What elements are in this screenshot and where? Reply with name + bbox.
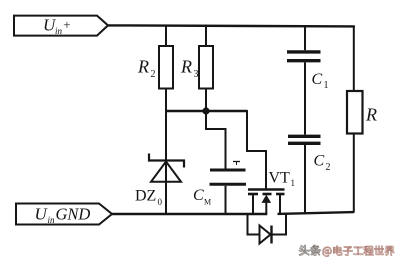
svg-text:2: 2: [151, 69, 156, 80]
svg-text:R: R: [365, 105, 377, 125]
wire C1 top lead: [304, 25, 306, 50]
svg-text:VT: VT: [269, 169, 291, 186]
svg-text:DZ: DZ: [135, 188, 156, 205]
svg-text:in: in: [48, 215, 56, 225]
wire R2 bottom through zener to bottom rail: [165, 89, 167, 215]
diode VD triangle: [260, 226, 271, 244]
svg-text:GND: GND: [56, 205, 91, 224]
resistor R3: [199, 46, 213, 89]
wire bottom rail left segment: [112, 213, 267, 215]
svg-text:+: +: [63, 17, 70, 32]
wire R3 bottom lead: [205, 89, 207, 112]
wire CM branch path: [206, 111, 226, 169]
resistor R2: [159, 46, 173, 89]
transistor VT1 body arrow shaft: [265, 201, 267, 214]
wire gate node horizontal: [165, 110, 247, 112]
svg-text:in: in: [55, 26, 63, 36]
transistor VT1 gate bar: [248, 188, 285, 191]
svg-text:3: 3: [194, 69, 199, 80]
wire C1-C2 middle link: [304, 62, 306, 134]
capacitor C1 bottom plate: [287, 59, 321, 62]
svg-text:M: M: [204, 198, 211, 207]
wire bottom rail right segment: [278, 212, 355, 214]
svg-text:1: 1: [324, 80, 329, 91]
diode VD cathode bar: [270, 226, 272, 244]
svg-text:U: U: [35, 205, 49, 224]
capacitor C2 top plate: [288, 135, 321, 138]
net flag Uin GND: [16, 204, 112, 225]
transistor VT1 source lead: [252, 195, 254, 214]
svg-text:C: C: [314, 153, 325, 170]
capacitor CM bottom plate: [210, 183, 247, 186]
svg-text:C: C: [312, 71, 323, 88]
wire R right top lead: [353, 26, 355, 92]
svg-text:R: R: [137, 57, 149, 77]
wire freewheel diode loop: [248, 214, 287, 235]
net flag Uin+: [14, 16, 108, 36]
zener diode DZ0 triangle: [151, 162, 181, 182]
watermark toutiao: [299, 245, 395, 257]
capacitor C2 bottom plate: [288, 142, 321, 145]
svg-text:1: 1: [291, 178, 296, 188]
transistor VT1 drain lead: [279, 195, 281, 214]
resistor R: [347, 91, 363, 134]
svg-text:2: 2: [326, 162, 331, 173]
wire R2 top lead: [165, 25, 167, 47]
junction dot gate node: [202, 107, 209, 114]
wire CM bottom lead: [225, 186, 227, 214]
wire top rail: [108, 25, 355, 26]
polarity tick near CM: [233, 161, 240, 163]
capacitor CM top plate: [210, 169, 246, 172]
zener diode DZ0 cathode bar: [149, 154, 184, 168]
svg-text:R: R: [180, 57, 192, 77]
capacitor C1 top plate: [287, 50, 321, 53]
transistor VT1 channel segments: [248, 193, 258, 196]
wire C2 bottom lead: [304, 145, 306, 213]
svg-text:0: 0: [158, 197, 163, 207]
wire R3 top lead: [205, 25, 207, 47]
wire R bottom lead: [353, 134, 355, 213]
svg-text:C: C: [193, 187, 204, 204]
transistor VT1 body arrowhead: [262, 195, 272, 203]
wire gate drive path: [247, 110, 266, 189]
